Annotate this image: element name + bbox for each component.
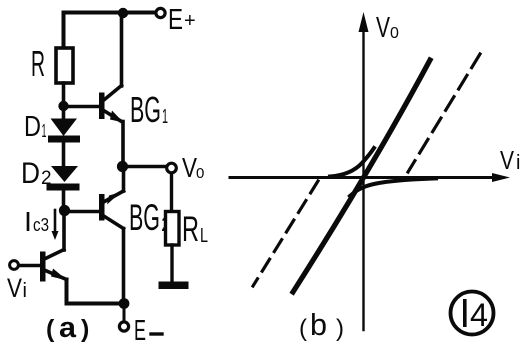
svg-text:R: R: [31, 43, 45, 84]
diode D2: [47, 166, 80, 191]
svg-text:): ): [336, 315, 344, 342]
transistor BG3: [40, 250, 68, 282]
svg-text:a: a: [59, 312, 77, 344]
wire RL to ground: [170, 245, 173, 282]
ground: [159, 282, 189, 290]
wire BG1 emitter down: [121, 122, 125, 166]
transistor BG2: [99, 191, 124, 229]
wire J4 down to BG3 collector: [62, 211, 66, 251]
resistor R: [56, 48, 73, 83]
wire BG2 emitter up to Vo node: [122, 167, 126, 191]
svg-text:i: i: [516, 152, 520, 174]
svg-text:(: (: [46, 315, 55, 343]
svg-text:R: R: [182, 210, 199, 249]
wire to E- terminal: [123, 304, 126, 322]
svg-text:(: (: [299, 315, 307, 342]
wire D1 to D2: [62, 142, 66, 166]
svg-text:E: E: [134, 315, 146, 347]
node junction Vo: [117, 161, 128, 172]
terminal Vo: [167, 163, 177, 173]
svg-text:V: V: [500, 145, 515, 175]
svg-text:0: 0: [390, 25, 399, 42]
svg-text:I: I: [24, 206, 32, 237]
svg-text:0: 0: [196, 165, 204, 182]
svg-text:BG: BG: [130, 89, 161, 130]
wire top rail E+: [64, 13, 158, 47]
svg-text:+: +: [184, 10, 196, 32]
svg-text:V: V: [182, 152, 197, 183]
figure number circle 14: [451, 292, 494, 335]
wire BG3 emitter down and bottom rail to E-: [67, 280, 122, 304]
resistor RL: [166, 212, 180, 246]
wire J2 to D1: [62, 106, 66, 119]
wire BG1 base: [64, 105, 99, 109]
svg-text:L: L: [200, 225, 208, 247]
arrowhead Vi axis: [492, 173, 510, 182]
svg-text:4: 4: [470, 297, 488, 333]
svg-text:V: V: [7, 273, 22, 303]
wire D2 to J4: [62, 190, 66, 206]
svg-text:D: D: [21, 157, 40, 190]
wire R bottom to node: [62, 83, 66, 102]
terminal E+: [156, 8, 165, 17]
svg-text:b: b: [310, 307, 327, 342]
svg-text:c3: c3: [33, 215, 49, 235]
svg-text:1: 1: [162, 106, 168, 128]
diode D1: [48, 119, 80, 143]
wire BG1 collector up: [120, 13, 124, 86]
curve upper-left branch: [330, 148, 374, 177]
dashed line right: [408, 54, 480, 172]
wire to Vo terminal: [123, 165, 166, 169]
svg-text:): ): [81, 315, 89, 343]
svg-text:i: i: [23, 280, 27, 302]
svg-text:V: V: [376, 12, 390, 44]
node junction J2: [58, 101, 68, 111]
node junction J1: [118, 8, 128, 18]
svg-text:D: D: [24, 111, 41, 143]
solid transfer line: [293, 60, 430, 292]
axis Vi horizontal: [230, 176, 502, 179]
svg-text:2: 2: [41, 168, 52, 189]
curve lower-right branch: [350, 178, 436, 196]
node junction E-: [119, 298, 130, 309]
svg-text:BG: BG: [129, 197, 160, 238]
svg-text:1: 1: [42, 121, 47, 141]
arrowhead V axis: [359, 12, 369, 32]
wire BG2 collector down to E- node: [122, 229, 126, 303]
terminal Vi: [10, 261, 19, 270]
wire Vi to BG3 base: [19, 264, 40, 268]
svg-text:E: E: [168, 4, 183, 36]
axis V0 vertical: [362, 28, 364, 330]
wire BG2 base: [65, 210, 99, 214]
transistor BG1: [99, 86, 124, 123]
node junction J4: [59, 205, 70, 216]
dashed line left: [253, 181, 318, 286]
wire Vo terminal down to RL: [170, 174, 173, 212]
label Ic3 with current arrow: [24, 206, 59, 240]
terminal E-: [119, 322, 128, 331]
